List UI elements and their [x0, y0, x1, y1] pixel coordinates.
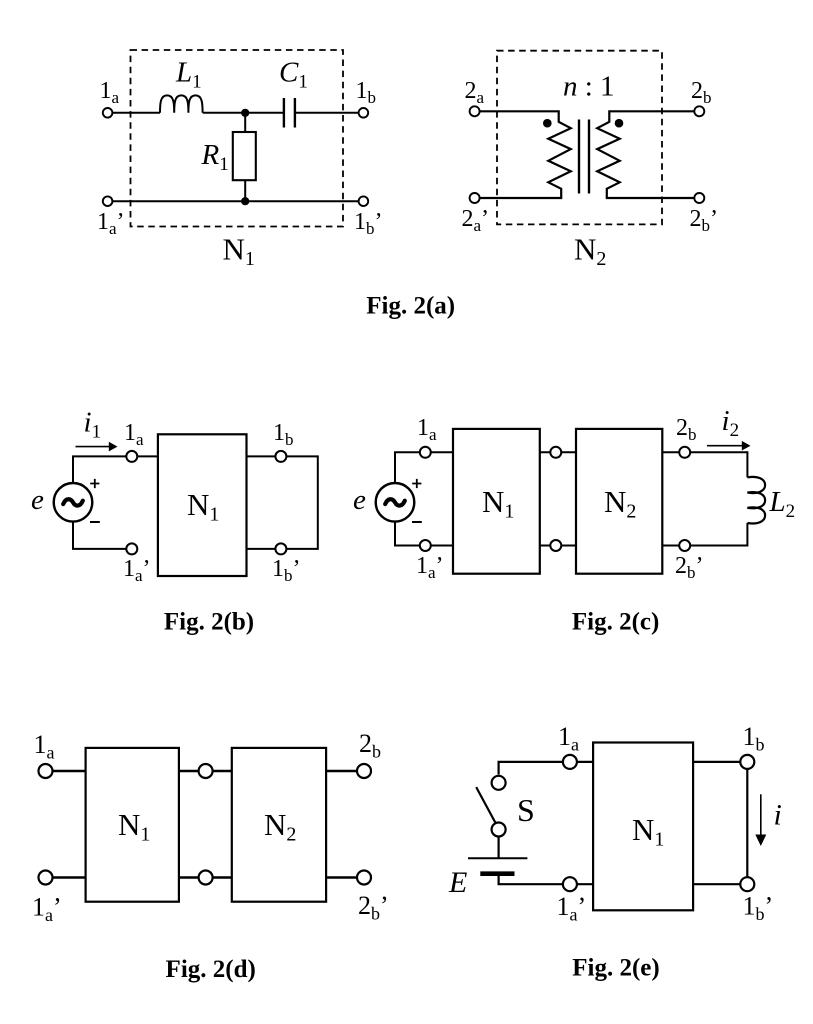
wire — [540, 545, 576, 547]
wire (bottom rail) — [112, 200, 358, 202]
wire (source top lead) — [73, 456, 126, 483]
wire — [540, 451, 576, 453]
network box N1 — [453, 429, 540, 574]
svg-text:1b’: 1b’ — [354, 209, 383, 238]
minus sign — [90, 521, 100, 523]
svg-text:2b’: 2b’ — [690, 206, 719, 235]
ac source e (circle) — [54, 483, 93, 522]
svg-text:1b: 1b — [356, 78, 377, 107]
terminal 1a — [39, 764, 53, 778]
network box N1 — [158, 434, 247, 576]
svg-text:1b’: 1b’ — [272, 556, 301, 585]
terminal 1a — [563, 755, 577, 769]
wire (short-circuit right side) — [286, 456, 317, 549]
svg-text:1a’: 1a’ — [97, 209, 125, 238]
svg-text:N2: N2 — [264, 807, 296, 846]
wire — [326, 770, 357, 772]
svg-text:E: E — [448, 866, 467, 899]
terminal 2b — [357, 764, 371, 778]
capacitor C1 — [284, 98, 295, 128]
wire — [247, 455, 276, 457]
terminal 1a' — [126, 543, 137, 554]
terminal 2b — [694, 106, 704, 116]
secondary winding (right) — [597, 111, 694, 198]
svg-text:S: S — [517, 792, 535, 828]
terminal 2b' — [357, 871, 371, 885]
wire — [53, 876, 86, 878]
svg-text:R1: R1 — [201, 139, 229, 175]
terminal 2b' — [694, 193, 704, 203]
switch S bottom contact — [492, 823, 506, 837]
terminal (bottom link) — [550, 540, 561, 551]
primary winding (left) — [480, 111, 571, 198]
terminal 1a' — [39, 871, 53, 885]
wire — [295, 112, 358, 114]
terminal 2b — [679, 447, 690, 458]
svg-text:i: i — [774, 799, 782, 832]
wire — [662, 451, 679, 453]
switch S top contact — [492, 776, 506, 790]
svg-text:Fig. 2(e): Fig. 2(e) — [572, 955, 659, 982]
terminal 2a — [470, 106, 480, 116]
ac source e (circle) — [376, 483, 415, 522]
network box N1 — [593, 743, 693, 911]
svg-text:1a’: 1a’ — [557, 892, 587, 925]
svg-text:2b: 2b — [359, 729, 381, 762]
current arrow i1 — [76, 442, 118, 452]
inductor L1 — [160, 95, 203, 112]
wire (switch to battery) — [498, 837, 500, 859]
wire — [247, 548, 276, 550]
terminal 1a — [126, 451, 137, 462]
terminal 1b' — [275, 543, 286, 554]
svg-text:N2: N2 — [604, 484, 636, 523]
svg-text:Fig. 2(d): Fig. 2(d) — [166, 956, 256, 983]
dashed box N2 — [497, 51, 662, 225]
svg-text:1a’: 1a’ — [416, 553, 444, 582]
wire — [137, 455, 158, 457]
terminal (bottom link) — [199, 871, 213, 885]
svg-text:Fig. 2(b): Fig. 2(b) — [164, 609, 254, 636]
transformer core — [579, 120, 589, 194]
svg-text:2a: 2a — [465, 78, 485, 107]
svg-text:1a: 1a — [124, 420, 144, 449]
wire — [179, 770, 232, 772]
battery E plate (short thick) — [480, 871, 514, 876]
junction node — [241, 197, 249, 205]
current arrow i (down) — [755, 794, 766, 846]
terminal (top link) — [550, 447, 561, 458]
terminal 1b' — [359, 196, 369, 206]
wire — [662, 545, 679, 547]
svg-text:1a’: 1a’ — [32, 893, 62, 926]
svg-text:N1: N1 — [187, 487, 219, 526]
terminal (top link) — [199, 764, 213, 778]
wire (L2 bottom lead) — [690, 523, 747, 546]
network box N2 — [232, 748, 326, 902]
svg-text:2b’: 2b’ — [675, 553, 704, 582]
wire (source bottom lead) — [395, 522, 420, 546]
svg-text:N1: N1 — [632, 812, 664, 851]
minus sign — [412, 521, 422, 523]
svg-text:C1: C1 — [279, 57, 308, 93]
terminal 2a' — [470, 193, 480, 203]
network box N2 — [576, 429, 662, 574]
wire — [112, 112, 160, 114]
wire — [693, 883, 740, 885]
wire (R1 bottom lead) — [244, 180, 246, 201]
inductor L2 — [747, 477, 765, 524]
svg-text:e: e — [31, 484, 44, 516]
wire — [179, 876, 232, 878]
junction node — [241, 109, 249, 117]
ac source sine symbol — [63, 499, 83, 505]
terminal 2b' — [679, 540, 690, 551]
svg-text:L1: L1 — [175, 57, 202, 93]
wire — [431, 545, 453, 547]
wire — [577, 761, 593, 763]
current arrow i2 — [707, 441, 751, 451]
svg-text:n : 1: n : 1 — [563, 71, 615, 103]
wire (source bottom lead) — [73, 522, 126, 549]
svg-text:1b: 1b — [743, 722, 765, 755]
wire (top, from switch to 1a) — [499, 762, 563, 775]
terminal 1b — [359, 108, 369, 118]
wire — [203, 112, 284, 114]
terminal 1a' — [563, 877, 577, 891]
svg-text:2a’: 2a’ — [462, 206, 490, 235]
svg-text:1a: 1a — [558, 722, 579, 755]
svg-text:2b: 2b — [676, 415, 697, 444]
wire (battery to 1a') — [499, 876, 563, 884]
svg-text:1a: 1a — [100, 78, 120, 107]
svg-text:Fig. 2(c): Fig. 2(c) — [572, 609, 659, 636]
svg-text:1b’: 1b’ — [743, 892, 774, 925]
svg-text:2b’: 2b’ — [358, 891, 389, 924]
switch blade — [476, 787, 495, 822]
wire (to L2) — [690, 452, 747, 477]
plus sign — [90, 479, 99, 488]
svg-text:N1: N1 — [118, 807, 150, 846]
wire — [326, 876, 357, 878]
svg-text:1a: 1a — [417, 415, 437, 444]
wire — [693, 761, 740, 763]
svg-text:2b: 2b — [691, 78, 712, 107]
svg-text:i2: i2 — [722, 405, 740, 441]
polarity dot (left) — [543, 119, 552, 128]
polarity dot (right) — [615, 119, 624, 128]
terminal 1b — [275, 451, 286, 462]
wire (source top lead) — [395, 452, 420, 483]
plus sign — [412, 479, 421, 488]
wire — [577, 883, 593, 885]
network box N1 — [86, 748, 179, 902]
svg-text:L2: L2 — [769, 486, 796, 522]
svg-text:N1: N1 — [482, 484, 514, 523]
dashed box N1 — [131, 50, 344, 227]
terminal 1a — [420, 447, 431, 458]
wire — [431, 451, 453, 453]
wire (short-circuit right side) — [746, 769, 748, 877]
ac source sine symbol — [385, 499, 405, 505]
terminal 1a — [103, 108, 113, 118]
terminal 1a' — [420, 540, 431, 551]
svg-text:1a: 1a — [34, 730, 55, 763]
svg-text:Fig. 2(a): Fig. 2(a) — [366, 293, 455, 320]
svg-text:e: e — [353, 484, 366, 516]
svg-text:i1: i1 — [84, 407, 102, 443]
terminal 1b — [740, 755, 754, 769]
terminal 1b' — [740, 877, 754, 891]
svg-text:N2: N2 — [574, 232, 606, 271]
wire (R1 top lead) — [244, 113, 246, 132]
wire — [53, 770, 86, 772]
svg-text:N1: N1 — [223, 232, 255, 271]
battery E plate (long) — [468, 857, 527, 859]
svg-text:1b: 1b — [273, 420, 294, 449]
terminal 1a' — [103, 196, 113, 206]
resistor R1 — [233, 132, 256, 180]
svg-text:1a’: 1a’ — [123, 556, 151, 585]
